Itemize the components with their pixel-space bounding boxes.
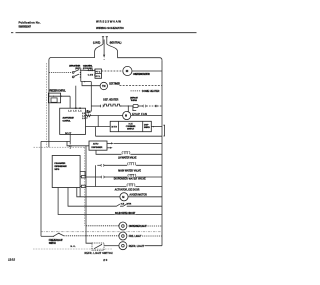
ADC right edge terminal ticks [86,113,88,118]
svg-text:AUTO: AUTO [93,143,99,146]
wire box to refr light [104,245,119,247]
wire dashed to freezer light [64,235,119,237]
main water valve coil [128,162,136,165]
left drop vertical [40,141,42,236]
wire ADC to evap fan [91,115,123,117]
evaporator fan motor [123,111,131,119]
svg-text:20: 20 [103,258,107,262]
connector pair [143,105,146,107]
wire ice box to right bus [151,126,162,128]
L/H water valve rung [96,150,122,154]
actuator ice door rung [86,186,127,188]
drop to ice container line [97,116,99,127]
svg-text:L/H WATER VALVE: L/H WATER VALVE [118,157,137,160]
svg-text:M: M [126,69,129,73]
svg-text:FREEZER LIGHT: FREEZER LIGHT [49,240,63,242]
ADC right terminal tick [87,110,89,111]
wire rung to bus [96,135,163,137]
defrost thermostat [133,104,138,107]
auto dispenser box [89,141,107,150]
svg-text:CONTAINER: CONTAINER [126,125,136,128]
compressor motor [123,66,132,75]
header rule [11,32,197,34]
wire dashed to bus [148,225,163,227]
wire [138,105,143,107]
auger motor feed [77,188,120,197]
svg-text:M: M [122,196,124,199]
defrost timer contact 1 [72,72,74,74]
wire dashed to right bus [146,105,162,107]
freezer light switch [41,235,53,237]
header publication text [19,21,41,29]
svg-text:(NEUTRAL): (NEUTRAL) [110,41,122,44]
svg-text:M: M [125,115,127,118]
refrigerator light switch dashed box [92,243,104,250]
defrost timer contact 2 [72,76,74,78]
svg-text:MTR: MTR [112,127,118,129]
wire auger to bus [128,196,162,198]
svg-text:1102: 1102 [8,258,15,262]
svg-text:DC CT: DC CT [65,133,72,135]
dome heater dashed wire [131,90,142,92]
wire left cord to left bus [49,44,103,60]
svg-text:SWITCH: SWITCH [144,127,150,129]
svg-text:SWITCH: SWITCH [49,243,56,245]
wire cluster output to defrost timer motor [81,81,92,83]
svg-text:WRS23W0AW: WRS23W0AW [96,20,121,24]
power cord plug prong NEUTRAL [106,37,108,45]
wire to bus [114,142,162,144]
wire right cord to right bus [107,44,162,60]
vertical feed to pad and down to light circuits [86,146,92,243]
L/H water valve coil [122,151,130,154]
defrost timer motor [100,82,107,89]
left bus (line side) [48,60,50,147]
wire ADC to ice container box [86,126,111,128]
ADC top feed from freezer control [69,96,71,108]
main water valve rung [97,164,101,166]
thermistor squiggle on evap feed [86,115,91,117]
compartment boundary dash-dot [41,231,161,233]
svg-text:ADAPTIVE DEF.: ADAPTIVE DEF. [62,117,74,120]
svg-text:COMPRESSOR MOTOR: COMPRESSOR MOTOR [133,73,150,76]
dispenser water valve rung [86,176,101,178]
cabinet boundary dashed vertical mid [84,147,86,226]
svg-text:(LINE): (LINE) [93,41,101,44]
wire dashed PTC to compressor [102,70,123,72]
wire to bus [142,235,162,237]
svg-text:DISPENSER WATER VALVE: DISPENSER WATER VALVE [114,178,146,181]
label SOLID STATE CIRCUIT [115,211,136,214]
big box terminal pads [81,176,85,178]
ice switch [117,204,120,206]
svg-text:FRZ. LIGHT: FRZ. LIGHT [129,235,142,238]
dispenser light [119,222,127,230]
inline connector ticks [156,105,157,107]
stub box to pads [80,177,81,187]
svg-text:FREEZER CONTROL: FREEZER CONTROL [49,90,66,92]
wire compressor to right bus [132,70,162,72]
solid state feed [58,188,162,215]
svg-text:PTC: PTC [96,72,101,74]
svg-text:ICE & WATER: ICE & WATER [54,162,65,165]
wire dashed def timer to right bus [120,85,163,87]
cabinet boundary dashed vertical left [46,63,48,147]
wire drop to def timer motor [82,82,100,86]
svg-text:THERM.: THERM. [131,100,138,102]
svg-text:REFR. LIGHT SWITCH: REFR. LIGHT SWITCH [85,252,113,255]
dashed feed from left bus to cold control [49,72,72,74]
svg-text:DEF. TIMER: DEF. TIMER [109,82,120,85]
svg-text:L6: L6 [82,118,85,120]
right bus (neutral side) [161,60,163,246]
PTC relay box [95,69,102,78]
svg-text:MAIN WATER VALVE: MAIN WATER VALVE [118,169,141,172]
ground arrow tail dot [104,59,105,60]
svg-text:L1: L1 [78,110,81,112]
wire vertical link [95,127,97,137]
svg-text:DEF. HEATER: DEF. HEATER [103,98,118,101]
cabinet boundary dashed horizontal [34,146,85,148]
auger motor [120,193,128,201]
adaptive defrost control board [60,108,86,134]
svg-text:ACTUATOR, ICE DOOR: ACTUATOR, ICE DOOR [115,189,140,192]
junction evap tap [128,105,129,106]
svg-text:5995352007: 5995352007 [19,24,32,28]
svg-text:TM: TM [102,85,105,88]
wire jog to auto dispenser [67,141,89,149]
dispenser feed line [41,140,70,142]
freezer control contact wire [48,95,70,97]
svg-text:L5: L5 [73,110,76,112]
svg-text:ICE: ICE [121,203,125,205]
wire heater rung left [91,105,100,107]
cabinet boundary dotted bottom [33,248,112,250]
wire def timer down link [86,82,92,112]
output arrow 2 [107,147,110,149]
wire vertical distribution [94,165,96,186]
connector pair vertical [69,145,71,147]
wire vertical link between contacts [80,70,82,82]
svg-text:AUGER MOTOR: AUGER MOTOR [129,193,147,196]
svg-text:L2: L2 [68,110,71,112]
dispenser water valve coil [128,174,136,177]
power cord plug prong LINE [102,37,104,45]
svg-text:EVAP FAN: EVAP FAN [132,113,147,116]
ground wire with arrow [103,40,105,55]
wire to bus [145,245,162,247]
dispenser big box [52,156,80,188]
svg-text:REFR. LIGHT: REFR. LIGHT [129,245,145,248]
svg-text:DISPENSER LIGHT: DISPENSER LIGHT [129,225,148,228]
svg-text:SOLID STATE CIRCUIT: SOLID STATE CIRCUIT [115,212,136,215]
wire evap fan tap [127,106,129,112]
svg-text:W/PS: W/PS [54,169,60,171]
wire cluster to PTC [81,69,95,71]
big box corner drop [79,188,81,197]
junction [84,81,85,82]
ADC bottom drop [69,134,71,144]
box stub upper [80,171,85,175]
freezer control box [48,93,60,103]
svg-text:N.O.: N.O. [71,246,77,248]
label EVAP FAN MOTOR [132,112,147,115]
freezer light [119,232,127,240]
svg-text:DISPENSER ASSY: DISPENSER ASSY [54,165,67,168]
sensing bulb box [51,98,57,102]
connector bracket right of bus [163,125,164,136]
defrost heater element [104,104,121,106]
water switch [123,204,126,206]
connector pair [100,105,103,107]
junction [120,105,121,106]
ADC top feed 2 [75,86,77,109]
ice container box [110,121,151,131]
actuator coil [127,183,135,186]
svg-text:L4: L4 [82,114,85,117]
ice water switches feed [68,188,116,207]
svg-text:DISPENSER: DISPENSER [91,147,102,149]
ADC top terminal pads [75,108,77,109]
thermostat stub [133,106,136,111]
output arrow 1 [107,142,111,144]
dispenser light feed dashed [86,225,119,227]
svg-text:SWITCH: SWITCH [127,129,135,131]
wire evap fan to right bus [131,115,162,117]
refrigerator light [119,242,127,250]
svg-text:WIRING SCHEMATIC: WIRING SCHEMATIC [96,26,125,30]
svg-text:WTR: WTR [127,203,132,205]
svg-text:CONTROL: CONTROL [62,121,71,123]
svg-text:DOME HEATER: DOME HEATER [142,90,160,93]
